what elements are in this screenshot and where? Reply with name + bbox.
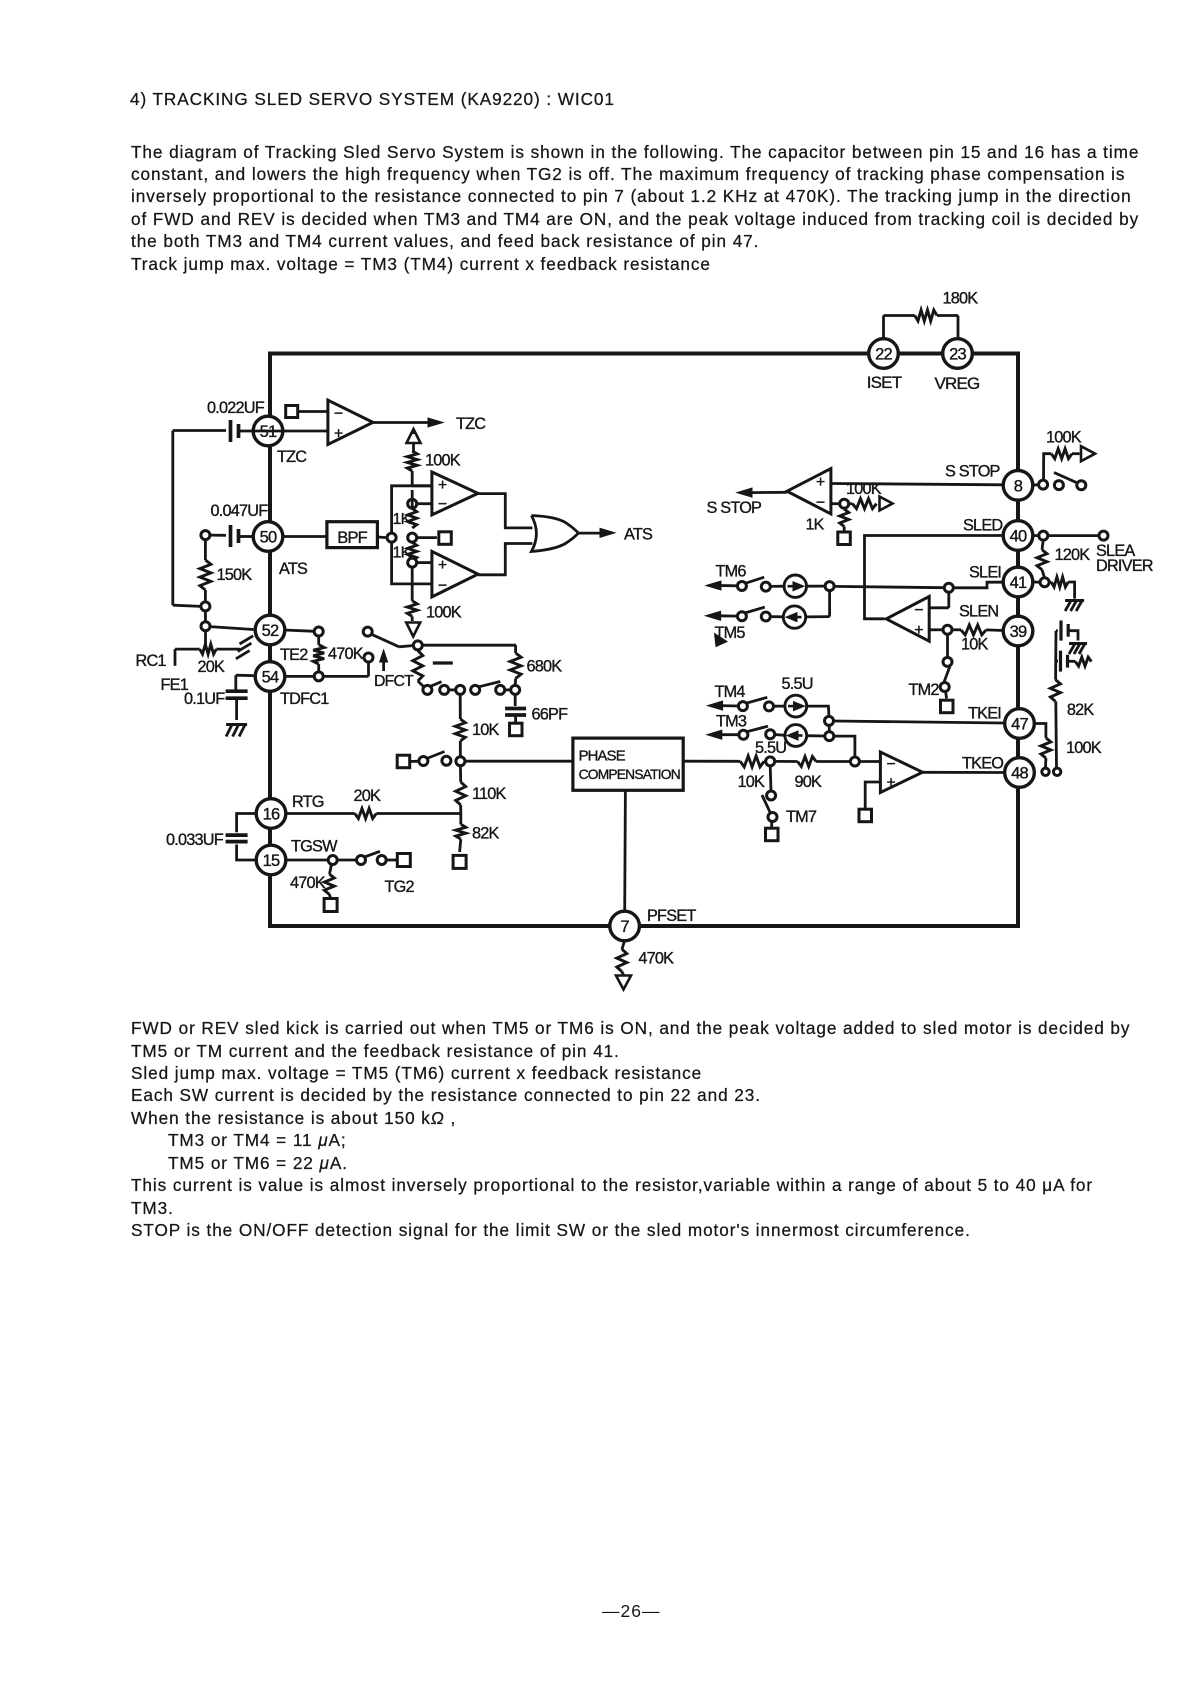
op-amp window comparator upper <box>432 472 478 515</box>
switch TM6 <box>737 577 770 591</box>
svg-text:−: − <box>914 602 923 619</box>
svg-text:+: + <box>816 474 825 491</box>
svg-text:470K: 470K <box>290 874 326 892</box>
resistor 470K TE2 <box>313 636 364 673</box>
svg-text:10K: 10K <box>738 773 766 791</box>
svg-text:DFCT: DFCT <box>374 673 414 690</box>
svg-text:66PF: 66PF <box>532 706 569 724</box>
arrow TM3 out <box>707 713 747 740</box>
svg-text:10K: 10K <box>472 721 500 739</box>
mark under TM5 <box>715 634 728 647</box>
svg-text:+: + <box>438 557 447 574</box>
svg-text:100K: 100K <box>1046 429 1082 447</box>
svg-text:82K: 82K <box>1067 701 1095 719</box>
node SLEA <box>1039 531 1048 540</box>
pin 7 PFSET <box>610 907 697 941</box>
svg-text:SLEN: SLEN <box>959 603 998 621</box>
resistor 10K <box>455 719 499 757</box>
switch TG2 <box>337 851 415 896</box>
capacitor SLEA 2 <box>1056 651 1075 672</box>
svg-text:TKEI: TKEI <box>968 705 1001 723</box>
svg-text:TKEO: TKEO <box>962 755 1003 773</box>
switch TM5 <box>737 607 770 621</box>
node BPF output <box>377 533 396 542</box>
resistor 470K TGSW <box>290 864 337 911</box>
svg-text:0.033UF: 0.033UF <box>166 831 224 849</box>
svg-text:ATS: ATS <box>279 560 308 578</box>
wire node to SLEI net <box>834 586 945 587</box>
resistor 150K <box>200 539 252 602</box>
wire ATS output with arrow <box>578 526 653 544</box>
capacitor 0.033UF <box>166 814 257 861</box>
wire SLED to driver amp <box>865 536 1004 619</box>
svg-text:TG2: TG2 <box>385 878 415 896</box>
resistor 10K SLEN <box>929 625 1004 654</box>
svg-text:RC1: RC1 <box>136 652 167 670</box>
svg-text:23: 23 <box>949 346 966 364</box>
resistor 680K <box>510 653 562 686</box>
wire SLEA driver <box>1032 531 1153 575</box>
switch TM3 <box>739 726 775 739</box>
node DFCT common <box>413 641 422 650</box>
current source TM6 <box>770 575 807 597</box>
pin 54 TDFC1 <box>255 662 329 708</box>
node 5.5U <box>755 739 786 766</box>
pin 48 TKEO <box>1005 758 1035 788</box>
node to pin 52 <box>201 610 254 631</box>
svg-text:ATS: ATS <box>624 526 653 544</box>
pin 52 TE2 <box>255 615 308 664</box>
pin 15 TGSW <box>256 838 338 875</box>
svg-text:7: 7 <box>620 918 629 936</box>
wire TM5 to node <box>806 590 830 617</box>
wire TKEO output <box>923 755 1004 773</box>
arrow TM5 out <box>706 611 746 642</box>
pin 22 ISET <box>867 339 902 392</box>
wire DFCT to 680K <box>422 645 516 653</box>
resistor SLEA filter <box>1075 657 1091 666</box>
wire S STOP output arrow <box>707 488 788 517</box>
switch chain contact 3 <box>456 685 465 694</box>
pin 40 SLED <box>963 517 1033 551</box>
svg-text:48: 48 <box>1011 765 1028 783</box>
capacitor 66PF <box>505 694 568 736</box>
svg-text:5.5U: 5.5U <box>782 675 813 693</box>
svg-text:−: − <box>334 405 343 422</box>
svg-text:0.047UF: 0.047UF <box>211 502 269 520</box>
node at 0.047UF left <box>201 531 210 540</box>
wire TM4 to TKEI node <box>807 706 829 717</box>
node TM3 <box>825 725 834 741</box>
svg-text:180K: 180K <box>943 290 979 308</box>
svg-text:SLED: SLED <box>963 517 1002 535</box>
minus dash <box>433 661 453 664</box>
svg-text:0.1UF: 0.1UF <box>184 690 225 708</box>
svg-text:100K: 100K <box>425 452 461 470</box>
svg-text:22: 22 <box>875 346 892 364</box>
svg-text:RTG: RTG <box>292 793 324 811</box>
wire comparator outputs to OR <box>478 494 532 575</box>
svg-text:TM6: TM6 <box>716 563 747 581</box>
arrow down rail <box>406 623 420 637</box>
wire to comparator plus <box>412 481 432 486</box>
svg-text:1K: 1K <box>806 517 825 534</box>
wire TGSW <box>285 859 328 862</box>
pin 47 TKEI <box>968 705 1034 739</box>
svg-text:+: + <box>886 774 895 791</box>
svg-text:+: + <box>334 425 343 442</box>
resistor 10K phase <box>683 756 766 791</box>
pin 16 RTG <box>256 793 324 828</box>
switch DFCT contact B <box>364 653 373 662</box>
node TM6/TM5 <box>825 582 834 591</box>
capacitor SLEA 1 <box>1056 621 1078 641</box>
pin 39 SLEN <box>959 603 1033 646</box>
node TE2 row <box>284 627 323 636</box>
wire contact5-6 <box>504 689 511 692</box>
resistor 90K <box>774 757 850 792</box>
svg-text:470K: 470K <box>328 645 364 663</box>
pin 23 VREG <box>935 339 980 393</box>
svg-text:40: 40 <box>1010 528 1027 546</box>
wire bottom bus <box>268 924 1018 928</box>
svg-text:TDFC1: TDFC1 <box>280 690 329 708</box>
arrow down rail PFSET <box>616 976 631 990</box>
capacitor 0.022UF <box>173 399 265 442</box>
resistor 20K RTG <box>286 787 461 819</box>
OR gate ATS <box>531 516 578 552</box>
switch at node with square <box>397 752 451 768</box>
svg-text:41: 41 <box>1010 574 1027 592</box>
switch TM2 <box>909 634 954 713</box>
svg-text:20K: 20K <box>198 658 226 676</box>
node right of 41 <box>1032 578 1049 587</box>
op-amp sled driver <box>886 597 929 642</box>
svg-text:−: − <box>438 496 447 513</box>
svg-text:−: − <box>886 756 895 773</box>
svg-text:−: − <box>816 494 825 511</box>
switch chain contact 6 <box>511 685 520 694</box>
svg-text:5.5U: 5.5U <box>755 739 786 757</box>
svg-text:90K: 90K <box>795 773 823 791</box>
svg-text:COMPENSATION: COMPENSATION <box>579 767 680 782</box>
svg-text:50: 50 <box>260 529 277 547</box>
resistor 82K lower-left <box>453 814 499 869</box>
svg-text:TZC: TZC <box>277 448 307 466</box>
pin 51 TZC <box>253 416 307 466</box>
svg-text:110K: 110K <box>472 785 507 803</box>
wire top bus <box>268 352 1018 356</box>
switch chain contact 2 <box>440 685 449 694</box>
wire TM3 node to 90K net <box>834 736 855 757</box>
resistor 1K lower <box>393 542 417 562</box>
chassis hatch at 20K <box>236 636 253 659</box>
svg-text:150K: 150K <box>217 566 253 584</box>
op-amp S STOP <box>787 469 831 514</box>
wire TM3 to node <box>807 734 825 737</box>
pin 41 SLEI <box>969 564 1033 597</box>
svg-text:BPF: BPF <box>337 529 367 547</box>
resistor unlabeled DFCT <box>413 651 425 688</box>
node TKEI <box>825 716 834 725</box>
switch chain contact 1 <box>423 685 432 694</box>
svg-text:1K: 1K <box>393 511 412 528</box>
svg-text:VREG: VREG <box>935 374 980 393</box>
arrow up rail <box>407 429 421 443</box>
wire TDFC1 to switch contact <box>323 662 369 677</box>
wire SLEA filter vertical <box>1054 631 1057 680</box>
ground hatch FE1 <box>226 725 247 737</box>
svg-text:47: 47 <box>1011 716 1028 734</box>
switch chain contact 4 <box>471 685 480 694</box>
switch chain contact 5 <box>496 685 505 694</box>
svg-text:SLEI: SLEI <box>969 564 1001 582</box>
arrow TM6 out <box>706 563 746 591</box>
svg-text:TM7: TM7 <box>786 808 817 826</box>
wire pin47 to 100K <box>1034 724 1046 738</box>
svg-text:TM4: TM4 <box>715 683 746 701</box>
node phase comp input <box>456 757 465 766</box>
resistor 180K with bracket wires <box>884 290 979 342</box>
arrow TM4 out <box>708 683 746 710</box>
arrow DFCT control <box>374 650 414 690</box>
resistor 82K right <box>1050 680 1094 768</box>
switch TM4 <box>738 697 773 711</box>
current source TM4 <box>773 675 813 717</box>
svg-text:TE2: TE2 <box>280 646 308 664</box>
contact 100K bottom <box>1042 768 1049 775</box>
switch DFCT contact A <box>363 627 372 636</box>
box PHASE COMPENSATION <box>573 738 683 790</box>
svg-text:100K: 100K <box>426 604 462 622</box>
wire S STOP plus to pin 8 <box>831 484 1004 485</box>
chassis hatch pin41 <box>1065 601 1084 612</box>
wire phase box to pin 7 <box>623 790 627 911</box>
switch TM7 <box>762 766 817 841</box>
svg-text:10K: 10K <box>961 636 989 654</box>
wire RC1 stub <box>136 649 176 670</box>
contact 82K bottom <box>1053 768 1060 775</box>
resistor 1K S STOP <box>806 508 851 545</box>
svg-text:PFSET: PFSET <box>647 907 696 925</box>
op-amp TZC comparator <box>254 400 373 444</box>
node TGSW <box>328 856 337 865</box>
node S STOP minus <box>831 499 849 508</box>
svg-text:16: 16 <box>263 806 280 824</box>
wire TZC output with arrow <box>373 415 486 433</box>
resistor 100K upper <box>407 442 461 481</box>
svg-text:+: + <box>438 477 447 494</box>
resistor 1K upper <box>393 490 417 528</box>
bracket BPF to comparators <box>392 486 432 584</box>
pin 8 S STOP <box>1003 471 1033 501</box>
node 90K TKE <box>850 757 880 766</box>
switch chain blade 2 <box>479 682 500 687</box>
resistor 110K <box>456 765 507 813</box>
node mid <box>408 533 417 542</box>
svg-text:−: − <box>438 577 447 594</box>
svg-text:S STOP: S STOP <box>945 463 1000 481</box>
svg-text:52: 52 <box>262 622 279 640</box>
wire sled minus to SLEI <box>929 582 1004 608</box>
svg-text:39: 39 <box>1010 623 1027 641</box>
capacitor 0.047UF <box>209 502 268 547</box>
svg-text:TZC: TZC <box>456 415 486 433</box>
switch DFCT blade <box>371 634 413 647</box>
resistor 100K pin8 with arrow <box>1044 429 1096 481</box>
current source TM3 <box>774 725 806 747</box>
pin 50 ATS <box>253 522 308 578</box>
resistor 100K S STOP with arrow <box>846 480 893 511</box>
switch chain blade 1 <box>431 682 442 687</box>
wire right bus <box>1016 352 1020 929</box>
wire TKEI to pin 47 <box>833 721 1003 723</box>
op-amp window comparator lower <box>432 551 478 597</box>
svg-text:+: + <box>914 622 923 639</box>
node minus upper <box>408 499 432 508</box>
resistor 120K <box>1037 540 1090 578</box>
resistor RC1 20K <box>175 630 240 676</box>
chassis hatch SLEA 1 <box>1069 644 1087 655</box>
wire left bus <box>268 352 272 929</box>
wire feedback left <box>173 431 201 607</box>
label S STOP pin <box>945 463 1000 481</box>
svg-text:100K: 100K <box>1066 739 1102 757</box>
svg-text:82K: 82K <box>472 825 500 843</box>
svg-text:TM3: TM3 <box>716 713 747 731</box>
wire contact2-3 <box>448 689 456 692</box>
svg-text:DRIVER: DRIVER <box>1096 557 1153 575</box>
current source TM5 <box>770 606 806 628</box>
svg-text:470K: 470K <box>638 950 674 968</box>
node 150K bottom <box>201 602 210 611</box>
svg-text:PHASE: PHASE <box>579 749 626 765</box>
svg-text:TM2: TM2 <box>909 681 940 699</box>
wire TKE plus input <box>859 782 880 822</box>
resistor 100K lower <box>407 567 462 622</box>
svg-text:680K: 680K <box>527 658 563 676</box>
svg-text:54: 54 <box>262 669 279 687</box>
svg-text:8: 8 <box>1014 477 1023 495</box>
node plus lower <box>408 558 432 567</box>
resistor 470K PFSET <box>617 941 674 976</box>
wire contact3 down <box>459 694 462 719</box>
wire pin8 switch <box>1032 473 1086 490</box>
resistor right of 41 <box>1049 577 1075 599</box>
svg-text:120K: 120K <box>1055 546 1091 564</box>
node TDFC1 row <box>284 672 323 681</box>
svg-text:0.022UF: 0.022UF <box>207 399 265 417</box>
wire TM6 to node <box>807 585 826 588</box>
svg-text:15: 15 <box>263 852 280 870</box>
svg-text:ISET: ISET <box>867 373 902 392</box>
svg-text:TGSW: TGSW <box>291 838 338 856</box>
capacitor FE1 0.1UF <box>161 675 254 720</box>
wire to test square <box>416 532 451 545</box>
resistor 100K TKEI <box>1041 738 1102 768</box>
box BPF <box>282 522 377 548</box>
op-amp TKE <box>880 752 922 793</box>
svg-text:20K: 20K <box>354 787 382 805</box>
svg-text:100K: 100K <box>846 480 882 498</box>
svg-text:S STOP: S STOP <box>707 499 762 517</box>
wire node to phase box <box>465 760 573 763</box>
